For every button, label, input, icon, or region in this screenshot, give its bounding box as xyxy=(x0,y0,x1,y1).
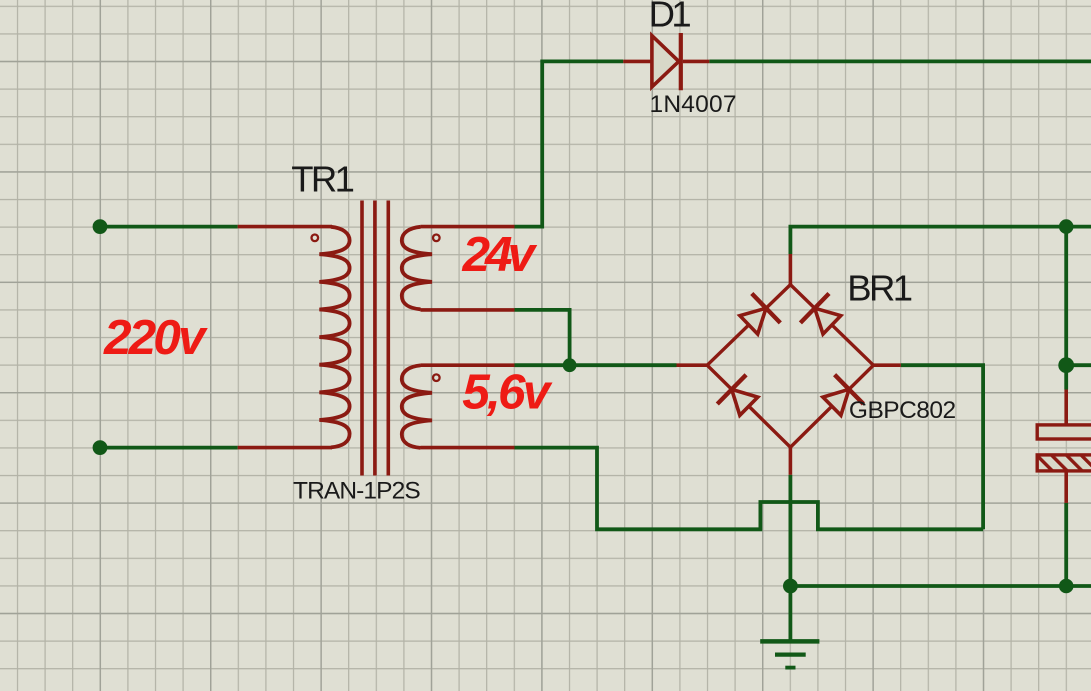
capacitor negative plate (hatched) xyxy=(1037,455,1091,471)
transformer TR1 secondary 24v winding xyxy=(402,227,432,309)
ground symbol xyxy=(760,641,819,667)
svg-text:TR1: TR1 xyxy=(291,159,355,200)
wire: 24v bottom pin to node B xyxy=(515,310,570,365)
diode D1 cathode bar xyxy=(679,33,683,90)
bridge BR1 diode top-right xyxy=(815,308,841,334)
bridge BR1 diode bottom-left xyxy=(732,389,758,415)
node: ground junction at bridge xyxy=(783,579,798,594)
diode D1 cathode pin xyxy=(683,60,709,64)
capacitor negative pin xyxy=(1064,471,1068,503)
svg-text:24v: 24v xyxy=(462,227,538,282)
wire: primary bottom terminal to transformer xyxy=(100,446,238,450)
wire: 5.6v bottom pin down and right with hop over bridge ground xyxy=(515,448,984,530)
wire: right column vertical through capacitor xyxy=(1064,227,1068,586)
wire: bridge bottom corner down to ground node xyxy=(789,475,793,642)
diode D1 body xyxy=(652,36,679,87)
transformer TR1 core xyxy=(362,201,388,476)
wire: bridge right corner down to bottom wire xyxy=(901,365,983,529)
node: left terminal bottom xyxy=(93,440,108,455)
wire: ground node to right edge xyxy=(790,584,1091,588)
node: ground junction at capacitor xyxy=(1059,579,1074,594)
node B: transformer secondary junction xyxy=(563,358,577,372)
svg-text:5,6v: 5,6v xyxy=(462,364,552,419)
transformer TR1 secondary 5.6v polarity dot xyxy=(433,374,440,381)
wire: 24v top pin up to diode D1 and to right edge xyxy=(515,61,1091,226)
wire: node B to bridge left corner xyxy=(570,363,677,367)
transformer TR1 primary polarity dot xyxy=(312,235,319,242)
bridge rectifier BR1 diamond frame xyxy=(707,285,873,448)
node: left terminal top xyxy=(93,219,108,234)
transformer TR1 secondary 24v polarity dot xyxy=(433,235,440,242)
svg-text:BR1: BR1 xyxy=(847,267,913,308)
wire: capacitor node to right edge xyxy=(1066,363,1091,367)
bridge BR1 diode top-left xyxy=(740,308,766,334)
wire: primary top terminal to transformer xyxy=(100,225,238,229)
transformer TR1 secondary 5.6v winding xyxy=(402,365,432,448)
diode D1 anode pin xyxy=(623,60,652,64)
node: capacitor top junction xyxy=(1058,357,1074,373)
bridge BR1 pins xyxy=(677,254,901,475)
transformer TR1 secondary 5.6v pins xyxy=(421,365,515,447)
capacitor positive pin xyxy=(1064,390,1068,425)
transformer TR1 primary pins xyxy=(238,227,332,448)
transformer TR1 primary winding xyxy=(319,227,349,448)
node: positive rail right junction xyxy=(1059,219,1074,234)
svg-text:TRAN-1P2S: TRAN-1P2S xyxy=(293,477,421,504)
transformer TR1 secondary 24v pins xyxy=(421,227,515,310)
wire: 5.6v top pin to node B xyxy=(515,363,570,367)
svg-text:GBPC802: GBPC802 xyxy=(849,397,956,424)
wire: bridge top corner up to positive rail xyxy=(790,227,1091,254)
capacitor positive plate xyxy=(1037,425,1091,439)
svg-text:220v: 220v xyxy=(103,310,208,365)
svg-text:1N4007: 1N4007 xyxy=(650,91,737,118)
svg-text:1: 1 xyxy=(671,0,691,34)
bridge BR1 diode bottom-right xyxy=(823,389,849,415)
